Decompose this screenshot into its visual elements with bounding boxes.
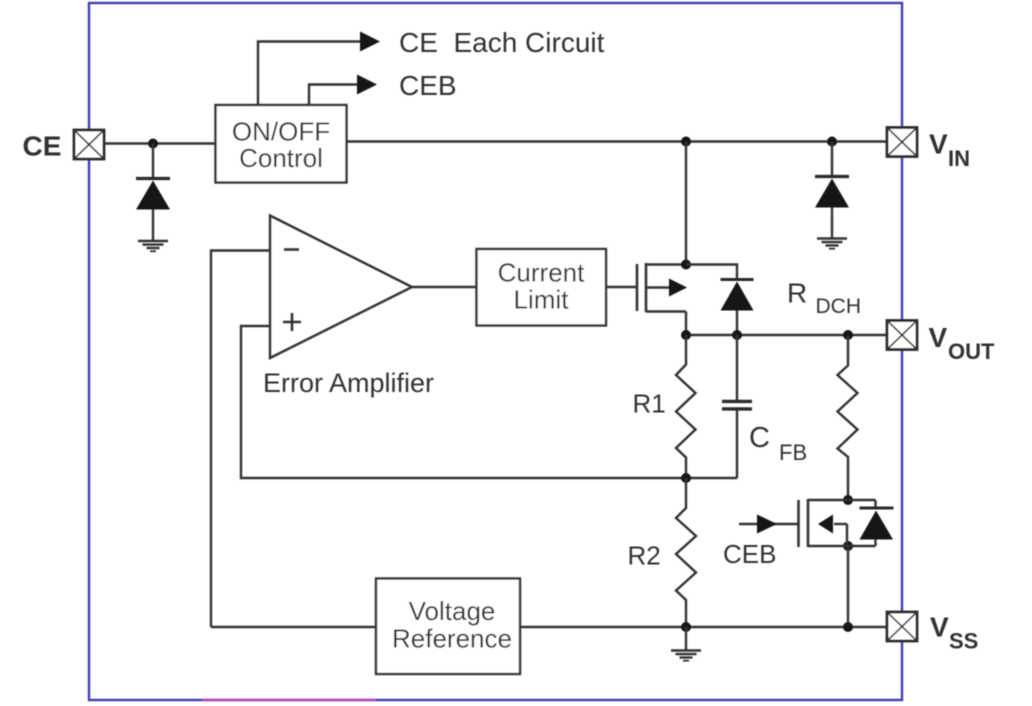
svg-text:Voltage: Voltage xyxy=(409,596,496,626)
svg-text:C: C xyxy=(749,422,770,454)
svg-text:CEB: CEB xyxy=(723,539,776,569)
svg-text:V: V xyxy=(929,322,948,353)
svg-text:V: V xyxy=(930,612,949,643)
svg-text:Error Amplifier: Error Amplifier xyxy=(263,368,434,398)
svg-text:SS: SS xyxy=(949,629,978,654)
svg-text:V: V xyxy=(929,129,948,160)
svg-text:OUT: OUT xyxy=(948,339,995,364)
svg-text:R2: R2 xyxy=(628,541,661,571)
svg-text:Control: Control xyxy=(239,143,323,173)
svg-text:Reference: Reference xyxy=(392,624,512,654)
svg-text:DCH: DCH xyxy=(816,295,862,318)
svg-text:Limit: Limit xyxy=(514,285,570,315)
svg-text:FB: FB xyxy=(779,440,807,465)
svg-text:R1: R1 xyxy=(633,389,666,419)
svg-text:CE Each Circuit: CE Each Circuit xyxy=(399,27,605,58)
svg-text:CE: CE xyxy=(23,131,62,162)
svg-text:Current: Current xyxy=(498,258,585,288)
svg-text:IN: IN xyxy=(948,146,970,171)
svg-text:ON/OFF: ON/OFF xyxy=(232,117,330,147)
svg-text:CEB: CEB xyxy=(399,70,457,101)
svg-text:R: R xyxy=(787,278,807,309)
